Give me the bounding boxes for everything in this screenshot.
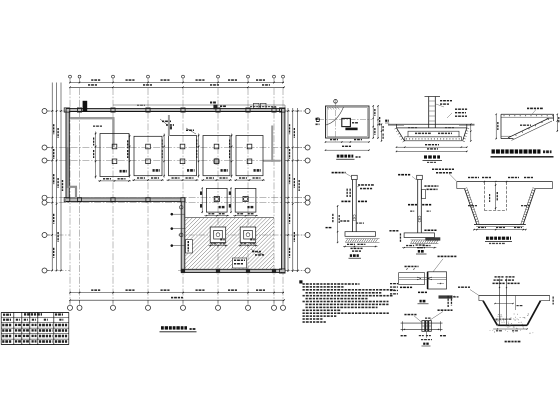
detail D2 label A-A [423, 155, 443, 163]
left exterior wall [66, 109, 69, 202]
detail D5 inner pit profile [484, 182, 506, 210]
top axis bubbles [69, 75, 285, 82]
detail D1 right dimension [373, 105, 381, 138]
detail D1 bottom dimension [325, 139, 370, 151]
leader dots into pit room [171, 213, 185, 247]
detail D5 top dimensions [468, 177, 533, 183]
equipment box left in pit room [186, 240, 193, 254]
detail C1 label [416, 244, 427, 254]
detail D5 pit trapezoid [457, 182, 553, 227]
detail D3 dimensions and notes [496, 108, 560, 140]
detail D2 excavation outline [395, 124, 470, 142]
section marker A between details [385, 120, 389, 123]
general notes block [299, 280, 394, 323]
section flag near axis 5 top [210, 102, 226, 110]
pit room wall marker circles [179, 206, 183, 237]
right dimension lines [287, 108, 300, 272]
plan title text [160, 326, 197, 332]
left dimension lines [51, 83, 63, 272]
beam label leaders top area [160, 119, 196, 134]
right exterior wall [282, 109, 285, 273]
detail D7 strip joint detail [401, 309, 453, 346]
interior trench line drop to footing XJ3 [112, 118, 114, 147]
detail D6 annotations [390, 256, 459, 304]
detail D5 slope labels [468, 205, 530, 206]
interior trench line top [70, 117, 115, 119]
horizontal grid lines [47, 111, 305, 271]
right axis bubbles [285, 109, 310, 274]
footing XJ5 (axis 6 row D) [200, 187, 229, 216]
bottom dimension line 1 [69, 289, 284, 293]
pit room top edge line [185, 217, 274, 219]
wall column squares [64, 108, 285, 273]
detail 1-1 wall section [326, 172, 380, 247]
top exterior wall [66, 109, 285, 112]
interior trench elbow [68, 187, 77, 198]
canopy outline above top wall [113, 105, 285, 109]
gray trench into footing at axis 4 [168, 115, 170, 136]
detail D1 section marker A [316, 118, 320, 125]
vertical grid lines [70, 88, 283, 303]
footing XJ4 (axis 5) [196, 134, 232, 181]
footing J1 in pit (axis 7) [239, 227, 258, 246]
small dual boxes above wall at axis 7-8 [254, 103, 267, 108]
detail D8 pit speckle fill [490, 313, 534, 333]
small mark above wall near axis 4 [137, 105, 145, 106]
footing XJ5 (axis 7 row D) [229, 187, 258, 216]
detail D2 bottom dimension [396, 144, 468, 152]
detail 1-1 label [349, 248, 363, 259]
left axis bubbles [42, 109, 50, 274]
detail D3 title (bold) [491, 149, 554, 156]
sump pit box in hatch [233, 258, 247, 268]
wall post blob at axis 3 [83, 101, 88, 111]
dim text near trench elbow [93, 126, 102, 127]
detail D2 column shaft [425, 97, 453, 128]
middle wall (bottom of upper strip) [66, 198, 185, 202]
detail D5 pit excavation top line [432, 169, 553, 182]
detail C1 wall section [389, 174, 440, 249]
detail D2 side dimensions [381, 109, 472, 142]
text above top wall right side [250, 106, 276, 107]
detail D6 tank plan [399, 272, 447, 289]
top dimension line 2 [69, 84, 285, 88]
interior trench line left [66, 147, 68, 188]
pit room left wall [181, 198, 185, 273]
footing XJ4 (axis 4) [162, 134, 199, 181]
detail D5 bottom dimension [473, 227, 526, 231]
detail D2 ground line [388, 124, 475, 125]
detail D2 footing body [405, 127, 462, 141]
bottom axis bubbles [68, 300, 286, 310]
detail D3 stepped slab outline [501, 114, 554, 140]
footing XJ4 (axis 6) [229, 134, 265, 181]
footing J1 in pit (axis 6) [209, 227, 228, 246]
bottom dimension line 2 [69, 297, 285, 301]
interior trench line near right wall [263, 126, 281, 162]
detail D8 dims and label [493, 297, 554, 343]
detail D1 isolated footing plan [316, 100, 372, 143]
top dimension line 1 [69, 79, 284, 83]
detail D5 title [485, 237, 512, 245]
detail D8 pit outline [479, 279, 550, 326]
pit room bottom wall [181, 269, 285, 272]
pit room annotation leaders [251, 250, 264, 256]
foundation schedule table [1, 312, 69, 344]
detail D1 title [336, 155, 360, 160]
footing XJ4 (axis 3) [127, 134, 164, 181]
detail D8 pit top annotations [448, 276, 520, 307]
footing XJ3 [93, 132, 131, 182]
